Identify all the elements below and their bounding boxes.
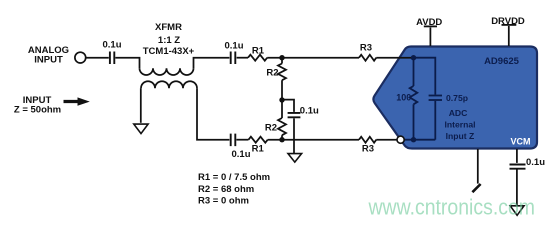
- svg-text:0.1u: 0.1u: [224, 41, 243, 52]
- svg-text:ADC: ADC: [449, 108, 468, 118]
- svg-text:VCM: VCM: [511, 137, 531, 147]
- svg-text:0.75p: 0.75p: [446, 93, 468, 103]
- svg-text:R2: R2: [265, 122, 277, 133]
- svg-text:Z = 50ohm: Z = 50ohm: [14, 104, 61, 115]
- svg-text:R1: R1: [252, 46, 265, 57]
- svg-text:100: 100: [396, 93, 411, 103]
- svg-text:0.1u: 0.1u: [300, 106, 319, 117]
- svg-text:AD9625: AD9625: [484, 56, 520, 67]
- svg-text:www.cntronics.com: www.cntronics.com: [368, 195, 535, 220]
- svg-text:DRVDD: DRVDD: [491, 16, 525, 27]
- svg-text:0.1u: 0.1u: [102, 39, 121, 50]
- svg-text:0.1u: 0.1u: [526, 157, 545, 168]
- svg-text:XFMR: XFMR: [155, 22, 182, 33]
- svg-text:R3: R3: [360, 42, 372, 53]
- svg-text:R2 = 68 ohm: R2 = 68 ohm: [198, 184, 254, 195]
- svg-text:R3 = 0 ohm: R3 = 0 ohm: [198, 195, 249, 206]
- svg-text:0.1u: 0.1u: [232, 149, 251, 160]
- svg-text:INPUT: INPUT: [34, 54, 63, 65]
- svg-text:Internal: Internal: [444, 120, 475, 130]
- svg-text:AVDD: AVDD: [416, 17, 442, 28]
- svg-text:R1: R1: [252, 143, 265, 154]
- svg-text:R1 = 0 / 7.5 ohm: R1 = 0 / 7.5 ohm: [198, 172, 270, 183]
- svg-text:TCM1-43X+: TCM1-43X+: [143, 46, 195, 57]
- svg-text:Input Z: Input Z: [446, 131, 475, 141]
- svg-text:1:1 Z: 1:1 Z: [158, 35, 180, 46]
- svg-text:R3: R3: [362, 144, 374, 155]
- svg-text:R2: R2: [266, 68, 278, 79]
